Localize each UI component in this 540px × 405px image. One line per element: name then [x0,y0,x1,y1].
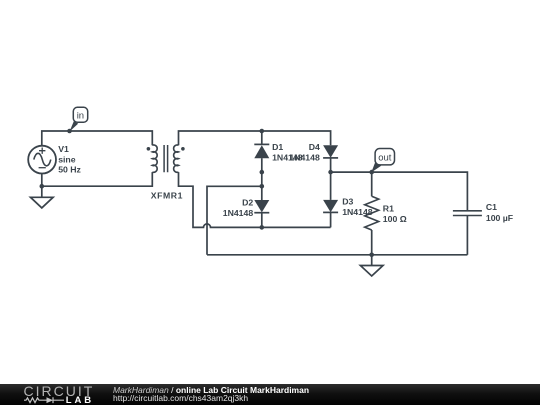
junction dot: in flag node [67,129,72,134]
svg-text:XFMR1: XFMR1 [151,191,183,201]
svg-text:C1: C1 [486,202,497,212]
svg-text:1N4148: 1N4148 [289,152,320,162]
footer bar [0,384,540,405]
wire: node to node [261,172,263,186]
diode D3 [323,200,338,213]
junction dot: D2 bottom [260,225,265,230]
svg-text:V1: V1 [58,144,69,154]
logo symbol [24,396,66,405]
wire: branch left and down to ground rail [207,186,262,255]
svg-text:D4: D4 [309,142,320,152]
svg-text:1N4148: 1N4148 [223,208,254,218]
wire: D3 top stub [330,172,332,200]
footer title line [113,385,309,395]
logo CIRCUIT [24,386,95,397]
wire: secondary bottom with hop over vertical [179,172,331,227]
footer url line [113,393,248,403]
junction dot: D4 cathode node [328,170,333,175]
logo LAB [66,396,94,405]
diode D2 [254,200,269,213]
wire: D1 anode down to node [261,158,263,172]
wire: D2 top stub [261,186,263,200]
wire: out rail to C1 [331,172,468,211]
svg-text:in: in [77,111,84,122]
svg-text:sine: sine [58,154,76,164]
wire: D4 cathode to node [330,158,332,172]
junction dot: D1 top [260,129,265,134]
wire: secondary top stub, top rail right, D4 top stub [179,131,331,145]
svg-text:100 Ω: 100 Ω [383,214,407,224]
junction dot: out node [369,170,374,175]
junction dot: V1 bottom [40,184,45,189]
ground at V1 [31,186,54,208]
junction dot: D1 anode [260,170,265,175]
svg-text:50 Hz: 50 Hz [58,165,81,175]
capacitor C1 [453,211,482,255]
svg-text:D1: D1 [272,142,283,152]
svg-text:out: out [378,152,392,163]
ground rail [207,254,467,256]
wire: primary bottom rail [42,172,153,186]
net flag in [70,107,88,131]
diode D4 [323,145,338,158]
diode D1 [254,144,269,158]
voltage source V1 [28,146,56,174]
wire: D1 top stub [261,131,263,144]
junction dot: bridge left mid [260,184,265,189]
svg-text:D3: D3 [342,197,353,207]
wire: D2 cathode to bottom rail [261,213,263,228]
junction dot: R1 bottom [369,253,374,258]
svg-text:D2: D2 [242,198,253,208]
svg-text:100 µF: 100 µF [486,213,513,223]
wire: D3 cathode down [330,212,332,227]
resistor R1 [365,172,379,255]
svg-text:1N4148: 1N4148 [342,207,373,217]
net flag out [371,149,394,173]
wire: V1 bottom stub [41,174,43,187]
svg-text:R1: R1 [383,203,394,213]
ground at output [360,255,383,276]
transformer XFMR1 [147,145,185,172]
wire: V1 top stub and top rail to primary [42,131,153,146]
